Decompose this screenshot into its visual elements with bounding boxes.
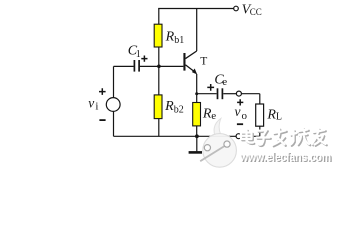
svg-text:b1: b1 — [174, 35, 184, 46]
svg-text:v: v — [88, 96, 94, 111]
svg-text:i: i — [95, 101, 98, 113]
svg-text:b2: b2 — [174, 104, 184, 115]
svg-text:CC: CC — [250, 7, 262, 17]
svg-text:R: R — [165, 30, 175, 45]
svg-text:v: v — [235, 104, 241, 119]
svg-text:T: T — [200, 55, 207, 67]
svg-text:e: e — [211, 110, 216, 122]
svg-text:o: o — [242, 110, 248, 122]
svg-text:e: e — [222, 76, 227, 88]
svg-text:R: R — [266, 108, 276, 123]
svg-text:R: R — [164, 99, 174, 114]
svg-text:L: L — [276, 112, 282, 123]
svg-text:www.elecfans.com: www.elecfans.com — [239, 150, 331, 164]
svg-text:1: 1 — [136, 49, 141, 60]
